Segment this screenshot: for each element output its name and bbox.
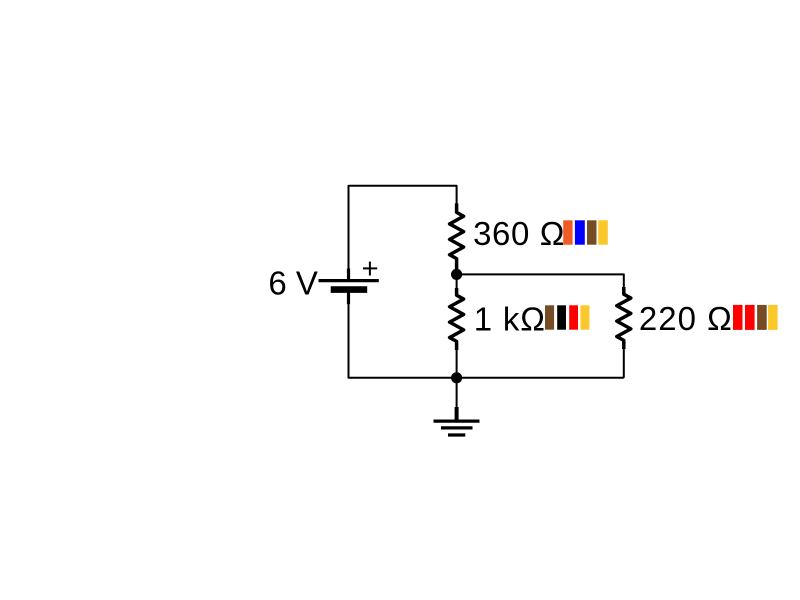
svg-text:220 Ω: 220 Ω bbox=[639, 300, 733, 337]
ground bbox=[434, 407, 480, 435]
color bands 360 (orange blue brown gold) bbox=[563, 220, 608, 244]
color bands 1k (brown black red gold) bbox=[545, 305, 589, 329]
color bands 220 (red red brown gold) bbox=[733, 305, 778, 330]
wire node B to ground bbox=[456, 378, 458, 408]
resistor 360 ohm bbox=[450, 203, 464, 274]
resistor 1 kohm bbox=[450, 274, 464, 377]
battery 6V bbox=[319, 269, 379, 305]
wire top loop (battery + to 360 top) bbox=[349, 186, 457, 269]
resistor 220 ohm bbox=[617, 287, 631, 378]
node A (junction 360/1k/220) bbox=[451, 269, 462, 280]
node B (bottom junction) bbox=[451, 372, 462, 383]
plus sign bbox=[363, 262, 377, 276]
wire bottom rail node to 220 bottom bbox=[457, 377, 624, 379]
wire battery minus to bottom rail bbox=[349, 304, 457, 378]
svg-text:1 kΩ: 1 kΩ bbox=[474, 301, 546, 338]
svg-text:360 Ω: 360 Ω bbox=[473, 215, 565, 252]
svg-text:6 V: 6 V bbox=[268, 265, 318, 302]
wire node A to 220 branch bbox=[457, 274, 624, 287]
